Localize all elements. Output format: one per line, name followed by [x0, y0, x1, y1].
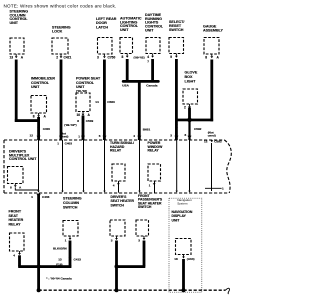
svg-text:12: 12: [204, 139, 208, 143]
svg-text:5: 5: [222, 187, 224, 191]
svg-text:LIGHT: LIGHT: [185, 79, 197, 83]
svg-text:8: 8: [10, 186, 12, 190]
svg-text:8: 8: [77, 119, 79, 123]
svg-text:3: 3: [170, 134, 172, 138]
svg-text:4: 4: [133, 134, 135, 138]
svg-text:UNIT: UNIT: [120, 28, 129, 32]
svg-text:CONTROL UNIT: CONTROL UNIT: [9, 157, 37, 161]
svg-text:3: 3: [111, 238, 113, 242]
svg-text:2: 2: [184, 106, 186, 110]
svg-text:* : '00-'04 Canada: * : '00-'04 Canada: [46, 277, 72, 281]
svg-text:B651: B651: [143, 127, 151, 131]
svg-text:STEERING: STEERING: [63, 197, 82, 201]
svg-text:C400: C400: [43, 127, 51, 131]
svg-text:USA: USA: [122, 83, 129, 87]
svg-text:C413: C413: [74, 257, 82, 261]
svg-text:C592: C592: [194, 127, 202, 131]
svg-text:System: System: [177, 201, 188, 205]
svg-text:SWITCH: SWITCH: [138, 205, 152, 209]
svg-text:4: 4: [31, 195, 33, 199]
svg-text:SWITCH: SWITCH: [63, 206, 78, 210]
svg-text:BLK/GRN: BLK/GRN: [53, 246, 67, 250]
svg-text:C592: C592: [214, 139, 222, 143]
svg-text:14: 14: [95, 100, 99, 104]
svg-text:13: 13: [58, 257, 62, 261]
svg-text:2: 2: [56, 56, 58, 60]
svg-text:NOTE: Wires shown without colo: NOTE: Wires shown without color codes ar…: [4, 3, 117, 8]
svg-text:used): used): [208, 134, 216, 138]
svg-text:8: 8: [185, 133, 187, 137]
svg-text:C406: C406: [42, 195, 50, 199]
svg-text:9: 9: [170, 55, 172, 59]
svg-text:ASSEMBLY: ASSEMBLY: [203, 28, 223, 32]
svg-text:(A04): (A04): [187, 257, 195, 261]
svg-text:3: 3: [138, 238, 140, 242]
svg-text:UNIT: UNIT: [145, 29, 154, 33]
svg-text:C750: C750: [108, 56, 116, 60]
svg-text:(*16): (*16): [56, 262, 63, 266]
svg-text:C509: C509: [86, 119, 94, 123]
svg-text:('99-'02*): ('99-'02*): [64, 123, 76, 127]
svg-text:COLUMN: COLUMN: [63, 201, 79, 205]
svg-text:Canada: Canada: [146, 83, 157, 87]
svg-text:C421: C421: [64, 56, 72, 60]
svg-text:18: 18: [174, 257, 178, 261]
svg-text:12: 12: [30, 134, 34, 138]
svg-text:1: 1: [149, 184, 151, 188]
svg-text:LOCK: LOCK: [52, 29, 63, 33]
svg-text:UNIT: UNIT: [172, 218, 181, 222]
svg-text:RELAY: RELAY: [148, 148, 160, 152]
svg-text:7: 7: [147, 60, 149, 64]
svg-text:SWITCH: SWITCH: [169, 28, 184, 32]
svg-text:UNIT: UNIT: [10, 21, 19, 25]
svg-text:C403: C403: [65, 142, 73, 146]
svg-text:1: 1: [65, 238, 67, 242]
svg-text:4: 4: [13, 254, 15, 258]
svg-text:3: 3: [97, 56, 99, 60]
svg-text:RELAY: RELAY: [9, 222, 22, 226]
svg-text:RELAY: RELAY: [110, 148, 122, 152]
svg-text:13: 13: [10, 56, 14, 60]
svg-text:10: 10: [77, 113, 81, 117]
svg-text:LATCH: LATCH: [96, 25, 108, 29]
svg-text:8: 8: [205, 56, 207, 60]
svg-text:C583: C583: [107, 100, 115, 104]
svg-text:4: 4: [147, 55, 149, 59]
svg-text:5: 5: [99, 134, 101, 138]
svg-text:8: 8: [122, 55, 124, 59]
svg-text:8: 8: [33, 115, 35, 119]
svg-text:SWITCH: SWITCH: [111, 203, 125, 207]
svg-text:1: 1: [57, 142, 59, 146]
svg-text:('00-'02): ('00-'02): [76, 89, 87, 93]
svg-text:UNIT: UNIT: [31, 85, 40, 89]
svg-text:4: 4: [113, 184, 115, 188]
svg-text:('99-'02): ('99-'02): [134, 56, 145, 60]
svg-text:1: 1: [78, 134, 80, 138]
